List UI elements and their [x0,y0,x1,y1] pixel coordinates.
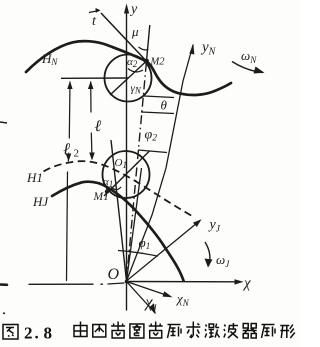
svg-text:2: 2 [74,148,80,160]
x_J axis [127,282,156,315]
x axis [127,279,244,284]
ray O to M1 [111,140,127,281]
curve HJ (thick profile) [52,182,184,281]
stray mark left edge [0,122,7,123]
caption: tu 2.8 [3,322,295,340]
theta bracket lines [144,96,174,98]
point M2 [144,59,149,64]
svg-text:y: y [129,2,138,17]
svg-text:μ: μ [131,24,139,39]
alpha2 angle arc [128,69,143,72]
omega_J arrow [205,242,213,268]
svg-text:ℓ: ℓ [95,118,102,135]
svg-text:2.8: 2.8 [24,324,52,343]
point M1 [105,189,109,193]
svg-text:χ: χ [242,276,251,292]
horizontal radius line [61,77,128,79]
diameter line through M2 [110,61,147,95]
x_N axis [127,282,173,298]
diameter line through M1 [104,151,150,196]
circle N (top roller) [105,55,152,102]
alpha1 angle arc [111,187,121,190]
svg-text:ℓ: ℓ [63,140,70,159]
circle J (bottom roller) [103,151,150,198]
mu angle arc [139,47,149,50]
label t with vector arrow [89,8,101,29]
dimension line l2 [66,81,73,281]
y_N axis [127,44,195,282]
omega_N arrow [232,62,265,74]
svg-text:θ: θ [161,98,168,113]
svg-text:M1: M1 [93,191,109,203]
line M2 extension up [147,25,150,61]
y_J axis [127,219,202,281]
tangent t [101,13,152,67]
curve H_N (gear profile) [26,41,231,95]
ray O upper (second construction ray) [127,168,142,281]
dimension line l [88,81,95,161]
svg-text:O: O [108,266,120,283]
phi2 bracket line [138,150,167,153]
phi1 arc [118,251,158,257]
y axis [124,4,129,311]
origin point [125,280,129,284]
curve H1 (dashed locus) [44,161,193,216]
svg-text:H1: H1 [26,170,43,185]
svg-text:HJ: HJ [32,194,49,209]
x axis dash-dot left part [0,283,124,285]
dash-dot line O to M2 [127,61,147,281]
